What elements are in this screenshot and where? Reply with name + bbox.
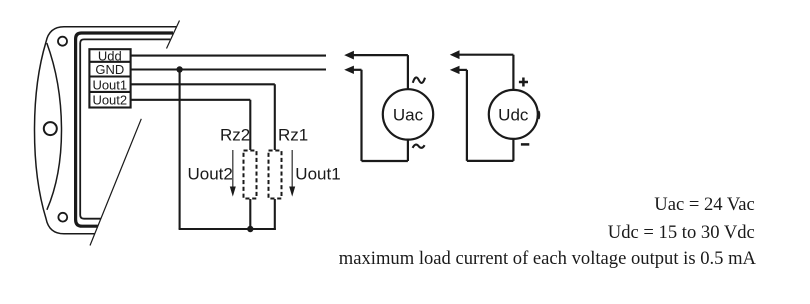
artifact mark right of Udc circle — [538, 111, 541, 119]
mounting hole bottom — [58, 213, 67, 222]
svg-text:Udc = 15 to 30 Vdc: Udc = 15 to 30 Vdc — [608, 222, 755, 243]
mounting hole middle — [44, 122, 57, 135]
+ symbol — [519, 78, 528, 87]
svg-text:Uout1: Uout1 — [92, 77, 127, 92]
wire bottom return — [179, 228, 276, 230]
arrow Uout2 — [230, 150, 236, 197]
wire Rz2 bottom — [249, 199, 251, 229]
svg-text:GND: GND — [95, 62, 124, 77]
Uac source: top arrow — [344, 51, 408, 89]
terminal block frame — [89, 49, 130, 107]
svg-text:Rz1: Rz1 — [278, 125, 308, 144]
resistor Rz1 — [269, 151, 282, 199]
node GND junction — [176, 66, 182, 72]
Udc source: top arrow — [450, 50, 514, 90]
transmitter housing flange outline — [35, 27, 177, 234]
svg-text:Uac: Uac — [393, 105, 424, 124]
terminal divider 3 — [89, 91, 130, 93]
source U1 Uac circle — [383, 89, 433, 139]
~ symbol bottom — [413, 145, 425, 148]
break line bottom — [90, 119, 141, 246]
svg-text:Uout2: Uout2 — [188, 164, 233, 183]
svg-text:maximum load current of each v: maximum load current of each voltage out… — [339, 248, 757, 269]
Udc source: bottom arrow — [450, 66, 514, 161]
svg-text:Udd: Udd — [98, 48, 122, 63]
wire GND vertical — [179, 70, 181, 230]
terminal divider 2 — [89, 75, 130, 77]
wire Uout1 horizontal — [132, 83, 275, 85]
arrow Uout1 — [289, 150, 295, 197]
break line top — [167, 21, 180, 49]
resistor Rz2 — [244, 151, 257, 199]
wire Uout1 vertical to Rz1 — [274, 84, 276, 150]
mounting hole top — [58, 37, 67, 46]
housing body outer frame (thick) — [76, 33, 174, 226]
svg-text:Uac = 24 Vac: Uac = 24 Vac — [654, 194, 755, 215]
svg-text:Rz2: Rz2 — [220, 125, 250, 144]
wire Udd — [132, 55, 327, 57]
terminal divider 1 — [89, 61, 130, 63]
Uac source: bottom arrow — [344, 66, 408, 161]
wire GND — [132, 68, 327, 70]
housing body inner frame (thin) — [80, 39, 170, 218]
source U2 Udc circle — [489, 90, 538, 139]
svg-text:Udc: Udc — [498, 105, 529, 124]
svg-text:Uout1: Uout1 — [295, 164, 340, 183]
housing curvature arc — [47, 43, 62, 210]
~ symbol top — [413, 77, 425, 82]
wire Rz1 bottom — [274, 199, 276, 230]
wire Uout2 vertical to Rz2 — [249, 100, 251, 150]
wire Uout2 horizontal — [132, 99, 251, 101]
node bottom junction — [247, 226, 253, 232]
svg-text:Uout2: Uout2 — [92, 93, 127, 108]
- symbol — [521, 143, 529, 146]
